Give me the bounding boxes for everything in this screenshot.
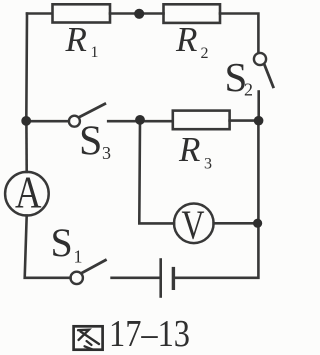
label R3 <box>178 130 212 173</box>
wire R2 to top-right corner <box>220 14 258 53</box>
node left (rail / S3 wire) <box>21 116 31 126</box>
wire node A to R2 <box>139 12 163 15</box>
resistor R1 <box>53 4 111 22</box>
wire R1 to node A <box>110 12 139 15</box>
label R2 <box>175 20 209 62</box>
node voltmeter-right rail junction <box>253 219 262 228</box>
label S1 <box>51 220 83 267</box>
svg-text:A: A <box>15 168 42 218</box>
switch S1 <box>71 272 83 284</box>
wire left rail upper <box>25 14 28 122</box>
svg-text:S: S <box>79 119 102 165</box>
node middle (S3 / R3 / V branch) <box>135 115 145 125</box>
svg-text:R: R <box>178 130 200 169</box>
svg-text:3: 3 <box>204 156 212 173</box>
svg-text:17–13: 17–13 <box>109 313 190 355</box>
wire node B vertical to voltmeter branch <box>139 121 174 223</box>
svg-text:R: R <box>65 20 87 59</box>
svg-text:S: S <box>51 220 73 265</box>
svg-text:2: 2 <box>201 45 209 62</box>
resistor R2 <box>164 4 221 23</box>
svg-text:V: V <box>182 202 205 248</box>
label S2 <box>225 54 254 100</box>
voltmeter V <box>174 204 214 244</box>
svg-text:1: 1 <box>91 44 99 61</box>
svg-text:R: R <box>175 20 197 59</box>
node right (R3 / S2 / rail) <box>254 116 264 126</box>
wire ammeter to bottom-left corner <box>25 216 71 278</box>
svg-text:1: 1 <box>74 247 83 267</box>
svg-text:2: 2 <box>244 80 253 100</box>
svg-text:3: 3 <box>102 143 111 163</box>
caption hanzi TU (drawn) <box>74 326 103 349</box>
wire top-left horizontal <box>27 12 52 15</box>
wire left rail to ammeter <box>25 121 28 172</box>
switch S3 <box>69 116 80 127</box>
label S3 <box>79 119 111 165</box>
ammeter A <box>5 172 49 216</box>
label R1 <box>65 20 99 61</box>
wire S3 to node B <box>108 120 172 123</box>
wire R3 to right rail <box>230 119 259 122</box>
battery short plate <box>172 269 175 289</box>
node top (R1/R2 junction) <box>134 9 144 19</box>
switch S2 <box>254 53 266 65</box>
battery long plate <box>159 260 162 297</box>
wire voltmeter to right rail <box>214 222 258 225</box>
wire S1 to battery <box>112 276 160 279</box>
wire battery to bottom-right corner and right rail <box>175 121 258 278</box>
wire middle left <box>26 120 69 123</box>
resistor R3 <box>173 111 230 130</box>
